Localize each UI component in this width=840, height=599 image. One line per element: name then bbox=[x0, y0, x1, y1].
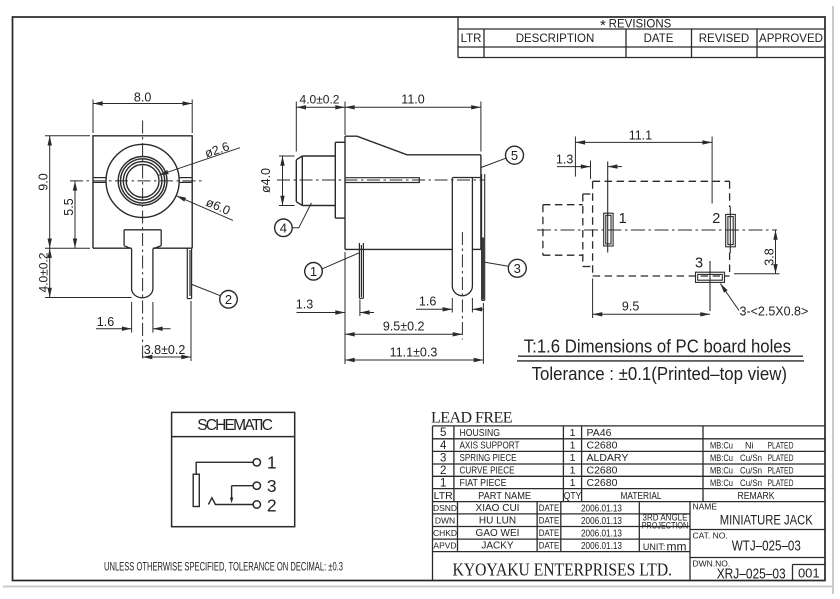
balloon 4 bbox=[275, 203, 312, 237]
dwn no cell bbox=[693, 559, 820, 583]
svg-text:Cu/Sn: Cu/Sn bbox=[740, 478, 762, 488]
svg-text:XIAO CUI: XIAO CUI bbox=[476, 503, 520, 514]
svg-text:PLATED: PLATED bbox=[768, 466, 794, 476]
svg-text:1: 1 bbox=[310, 264, 317, 279]
svg-text:CURVE PIECE: CURVE PIECE bbox=[460, 465, 515, 477]
svg-text:1.3: 1.3 bbox=[296, 297, 313, 311]
side collar bbox=[335, 142, 345, 218]
svg-text:8.0: 8.0 bbox=[134, 90, 151, 104]
unit cell bbox=[643, 540, 687, 554]
svg-text:APPROVED: APPROVED bbox=[759, 33, 823, 45]
svg-text:PART NAME: PART NAME bbox=[478, 490, 531, 502]
lead free label bbox=[431, 410, 513, 427]
svg-text:Tolerance : ±0.1(Printed–top v: Tolerance : ±0.1(Printed–top view) bbox=[532, 363, 787, 384]
svg-text:9.5±0.2: 9.5±0.2 bbox=[383, 320, 425, 334]
svg-text:DATE: DATE bbox=[539, 503, 560, 514]
svg-text:UNLESS OTHERWISE SPECIFIED, TO: UNLESS OTHERWISE SPECIFIED, TOLERANCE ON… bbox=[104, 560, 343, 574]
revisions table header text bbox=[461, 17, 823, 45]
svg-text:UNIT:: UNIT: bbox=[643, 542, 666, 552]
top view barrel dashed bbox=[543, 205, 583, 256]
svg-text:C2680: C2680 bbox=[587, 440, 618, 452]
svg-text:11.1: 11.1 bbox=[629, 129, 652, 143]
svg-text:2006.01.13: 2006.01.13 bbox=[581, 504, 622, 515]
svg-text:REVISIONS: REVISIONS bbox=[609, 19, 672, 31]
dim 3.8+-0.2 bbox=[143, 301, 191, 361]
svg-text:4: 4 bbox=[440, 440, 447, 452]
svg-text:9.5: 9.5 bbox=[622, 300, 639, 314]
schematic title bbox=[197, 417, 273, 434]
side flat piece (item 3) bbox=[482, 174, 485, 300]
top view body dashed outline bbox=[593, 181, 730, 276]
svg-text:CHKD: CHKD bbox=[433, 528, 457, 538]
svg-text:*: * bbox=[600, 17, 606, 34]
name cell bbox=[693, 502, 813, 528]
dim 11.1 (top view) bbox=[575, 137, 712, 204]
dia 6.0 label and leader bbox=[176, 195, 233, 220]
svg-text:2006.01.13: 2006.01.13 bbox=[581, 541, 622, 552]
front side slot tabs bbox=[94, 178, 192, 183]
dim 4.0+-0.2 (front) bbox=[45, 248, 132, 297]
svg-text:DESCRIPTION: DESCRIPTION bbox=[516, 33, 595, 45]
svg-text:DATE: DATE bbox=[539, 528, 560, 539]
hole size note 3-(2.5X0.8) bbox=[720, 284, 808, 319]
dim 1.3 (side) bbox=[297, 252, 375, 364]
svg-text:HOUSING: HOUSING bbox=[460, 427, 501, 439]
svg-text:1: 1 bbox=[619, 211, 627, 227]
svg-text:2: 2 bbox=[225, 292, 232, 307]
svg-text:3-<2.5X0.8>: 3-<2.5X0.8> bbox=[740, 305, 809, 319]
side pin item 1 bbox=[359, 243, 363, 298]
terminal 1 bbox=[253, 452, 277, 472]
svg-text:NAME: NAME bbox=[693, 502, 718, 512]
svg-text:3.8: 3.8 bbox=[762, 248, 776, 265]
svg-text:C2680: C2680 bbox=[587, 465, 618, 477]
svg-text:11.1±0.3: 11.1±0.3 bbox=[390, 345, 438, 359]
svg-text:2: 2 bbox=[712, 211, 720, 227]
svg-text:5: 5 bbox=[440, 427, 446, 439]
svg-text:3: 3 bbox=[514, 261, 521, 276]
svg-text:1: 1 bbox=[570, 452, 576, 464]
wire to terminal 3 with switch arrow bbox=[230, 486, 253, 504]
svg-text:MB:Cu: MB:Cu bbox=[710, 453, 733, 463]
svg-text:ø4.0: ø4.0 bbox=[259, 168, 273, 193]
svg-text:DWN: DWN bbox=[435, 516, 455, 526]
svg-text:11.0: 11.0 bbox=[401, 92, 424, 106]
hole 3 label bbox=[695, 255, 703, 271]
dim 4.0+-0.2 (side) bbox=[296, 102, 345, 152]
svg-text:1: 1 bbox=[570, 427, 576, 439]
schematic box frame bbox=[172, 412, 295, 526]
side center contact pin bar bbox=[345, 178, 419, 183]
signoff row DSND bbox=[433, 503, 622, 514]
dim 9.0 bbox=[45, 136, 90, 248]
svg-text:DATE: DATE bbox=[539, 541, 560, 552]
svg-text:2: 2 bbox=[440, 465, 446, 477]
svg-text:XRJ–025–03: XRJ–025–03 bbox=[717, 566, 786, 583]
BOM row 3 spring piece bbox=[440, 452, 794, 464]
svg-text:1: 1 bbox=[267, 452, 277, 472]
svg-text:PLATED: PLATED bbox=[768, 453, 794, 463]
signoff row CHKD bbox=[433, 528, 622, 539]
svg-text:Cu/Sn: Cu/Sn bbox=[740, 466, 762, 476]
terminal 2 bbox=[253, 496, 277, 516]
svg-text:5.5: 5.5 bbox=[62, 198, 76, 215]
svg-text:SPRING PIECE: SPRING PIECE bbox=[460, 452, 517, 464]
svg-text:Cu/Sn: Cu/Sn bbox=[740, 453, 762, 463]
front jack circles (outer body circle) bbox=[106, 144, 179, 217]
svg-text:2: 2 bbox=[267, 496, 277, 516]
terminal 3 bbox=[253, 476, 277, 496]
svg-text:1: 1 bbox=[440, 477, 446, 489]
balloon 1 bbox=[305, 253, 360, 280]
signoff row APVD bbox=[433, 541, 622, 552]
dim 1.6 (front pin width) bbox=[96, 302, 171, 333]
svg-text:3: 3 bbox=[440, 453, 446, 465]
svg-text:LEAD FREE: LEAD FREE bbox=[431, 410, 513, 427]
signoff row DWN bbox=[435, 516, 623, 527]
side spring piece U pin (item 3 hole pin) bbox=[452, 178, 481, 296]
BOM row 2 curve piece bbox=[440, 465, 794, 477]
front side bracket (item 2) bbox=[187, 248, 191, 298]
svg-text:DATE: DATE bbox=[644, 33, 674, 45]
svg-text:JACKY: JACKY bbox=[481, 541, 514, 552]
svg-text:LTR: LTR bbox=[461, 33, 482, 45]
svg-text:FIAT PIECE: FIAT PIECE bbox=[460, 477, 507, 489]
svg-text:ALDARY: ALDARY bbox=[587, 452, 629, 464]
svg-text:MINIATURE JACK: MINIATURE JACK bbox=[720, 513, 813, 528]
BOM header row bbox=[434, 490, 775, 502]
general tolerance note bbox=[104, 560, 343, 574]
wire to terminal 1 bbox=[196, 462, 253, 474]
balloon 3 bbox=[485, 259, 526, 277]
svg-text:4.0±0.2: 4.0±0.2 bbox=[37, 252, 51, 292]
svg-text:MB:Cu: MB:Cu bbox=[710, 478, 733, 488]
cat no cell bbox=[693, 531, 801, 555]
hole 3 bbox=[696, 261, 725, 311]
dim 11.1+-0.3 bbox=[345, 303, 483, 364]
svg-text:APVD: APVD bbox=[433, 541, 456, 551]
front horizontal center line bbox=[70, 180, 203, 182]
svg-text:2006.01.13: 2006.01.13 bbox=[581, 529, 622, 540]
svg-text:DATE: DATE bbox=[539, 516, 560, 527]
side center line bbox=[277, 179, 484, 181]
svg-text:MATERIAL: MATERIAL bbox=[621, 490, 662, 502]
svg-text:4: 4 bbox=[280, 221, 287, 236]
top view center line bbox=[537, 229, 777, 231]
dim 11.0 bbox=[345, 102, 481, 152]
side barrel (item 4 sleeve) bbox=[296, 156, 335, 206]
svg-text:1.6: 1.6 bbox=[97, 315, 114, 329]
svg-text:1: 1 bbox=[570, 440, 576, 452]
svg-text:CAT. NO.: CAT. NO. bbox=[693, 531, 728, 541]
balloon 5 bbox=[481, 146, 523, 167]
svg-text:QTY: QTY bbox=[564, 491, 582, 502]
dim 3.8 (top view) bbox=[734, 230, 780, 274]
top view collar dashed bbox=[583, 194, 593, 267]
svg-text:REVISED: REVISED bbox=[699, 33, 750, 45]
dim 9.5+-0.2 bbox=[345, 333, 462, 335]
BOM row 1 fiat piece bbox=[440, 477, 794, 489]
hole 1 label bbox=[619, 211, 627, 227]
side spring pin center extension bbox=[461, 232, 463, 340]
hole 1 bbox=[604, 162, 613, 253]
front vertical center line bbox=[142, 121, 144, 363]
svg-text:MB:Cu: MB:Cu bbox=[710, 466, 733, 476]
svg-text:REMARK: REMARK bbox=[738, 490, 775, 502]
svg-text:SCHEMATIC: SCHEMATIC bbox=[197, 417, 273, 434]
dim 1.3 (top view) bbox=[557, 161, 622, 180]
svg-text:4.0±0.2: 4.0±0.2 bbox=[300, 92, 340, 106]
svg-text:1: 1 bbox=[570, 465, 576, 477]
balloon 2 bbox=[192, 285, 237, 309]
tip contact chevron and wire to terminal 2 bbox=[208, 498, 253, 505]
svg-text:1.3: 1.3 bbox=[556, 152, 573, 166]
title block grid bbox=[433, 426, 826, 581]
hole 2 bbox=[726, 207, 736, 254]
company name bbox=[453, 560, 673, 580]
svg-text:1.6: 1.6 bbox=[419, 295, 436, 309]
svg-text:PROJECTION: PROJECTION bbox=[642, 520, 689, 530]
BOM row 5 housing bbox=[440, 427, 612, 439]
hole 2 label bbox=[712, 211, 720, 227]
front center pin (item 1) bbox=[124, 230, 161, 298]
svg-text:AXIS SUPPORT: AXIS SUPPORT bbox=[460, 440, 520, 452]
svg-text:2006.01.13: 2006.01.13 bbox=[581, 516, 622, 527]
dim 1.6 (side) bbox=[416, 298, 483, 313]
schematic sleeve bar bbox=[193, 474, 199, 506]
dim 9.5 (top view) bbox=[593, 279, 710, 319]
revisions table bbox=[458, 17, 825, 58]
note T:1.6 dimensions of PC board holes bbox=[517, 336, 804, 361]
BOM row 4 axis support bbox=[440, 440, 794, 452]
svg-text:1: 1 bbox=[570, 477, 576, 489]
svg-text:001: 001 bbox=[798, 566, 820, 581]
svg-text:DSND: DSND bbox=[433, 503, 457, 513]
svg-text:PLATED: PLATED bbox=[768, 478, 794, 488]
front body outline bbox=[93, 136, 192, 248]
svg-text:MB:Cu: MB:Cu bbox=[710, 441, 733, 451]
dim 8.0 bbox=[93, 100, 192, 134]
dim dia 4.0 bbox=[279, 156, 295, 206]
svg-text:LTR: LTR bbox=[434, 490, 453, 502]
svg-text:3.8±0.2: 3.8±0.2 bbox=[144, 343, 186, 357]
svg-text:3: 3 bbox=[695, 255, 703, 271]
svg-text:Ni: Ni bbox=[745, 441, 754, 451]
side body (item 5 housing) bbox=[345, 136, 481, 249]
svg-text:WTJ–025–03: WTJ–025–03 bbox=[732, 537, 801, 554]
dim 5.5 bbox=[74, 181, 76, 248]
svg-text:T:1.6 Dimensions of PC boa: T:1.6 Dimensions of PC board holes bbox=[524, 336, 791, 357]
svg-text:PA46: PA46 bbox=[587, 427, 612, 439]
svg-text:mm: mm bbox=[667, 540, 687, 554]
third angle projection cell bbox=[642, 512, 689, 530]
svg-text:C2680: C2680 bbox=[587, 477, 618, 489]
svg-text:3: 3 bbox=[267, 476, 277, 496]
svg-text:GAO WEI: GAO WEI bbox=[476, 528, 520, 539]
svg-text:KYOYAKU ENTERPRISES LTD.: KYOYAKU ENTERPRISES LTD. bbox=[453, 560, 673, 580]
svg-text:5: 5 bbox=[511, 148, 518, 163]
note tolerance bbox=[532, 363, 787, 384]
svg-text:HU LUN: HU LUN bbox=[479, 516, 516, 527]
svg-text:PLATED: PLATED bbox=[768, 441, 794, 451]
svg-text:9.0: 9.0 bbox=[37, 173, 51, 190]
dia 2.6 label and leader bbox=[159, 139, 240, 175]
